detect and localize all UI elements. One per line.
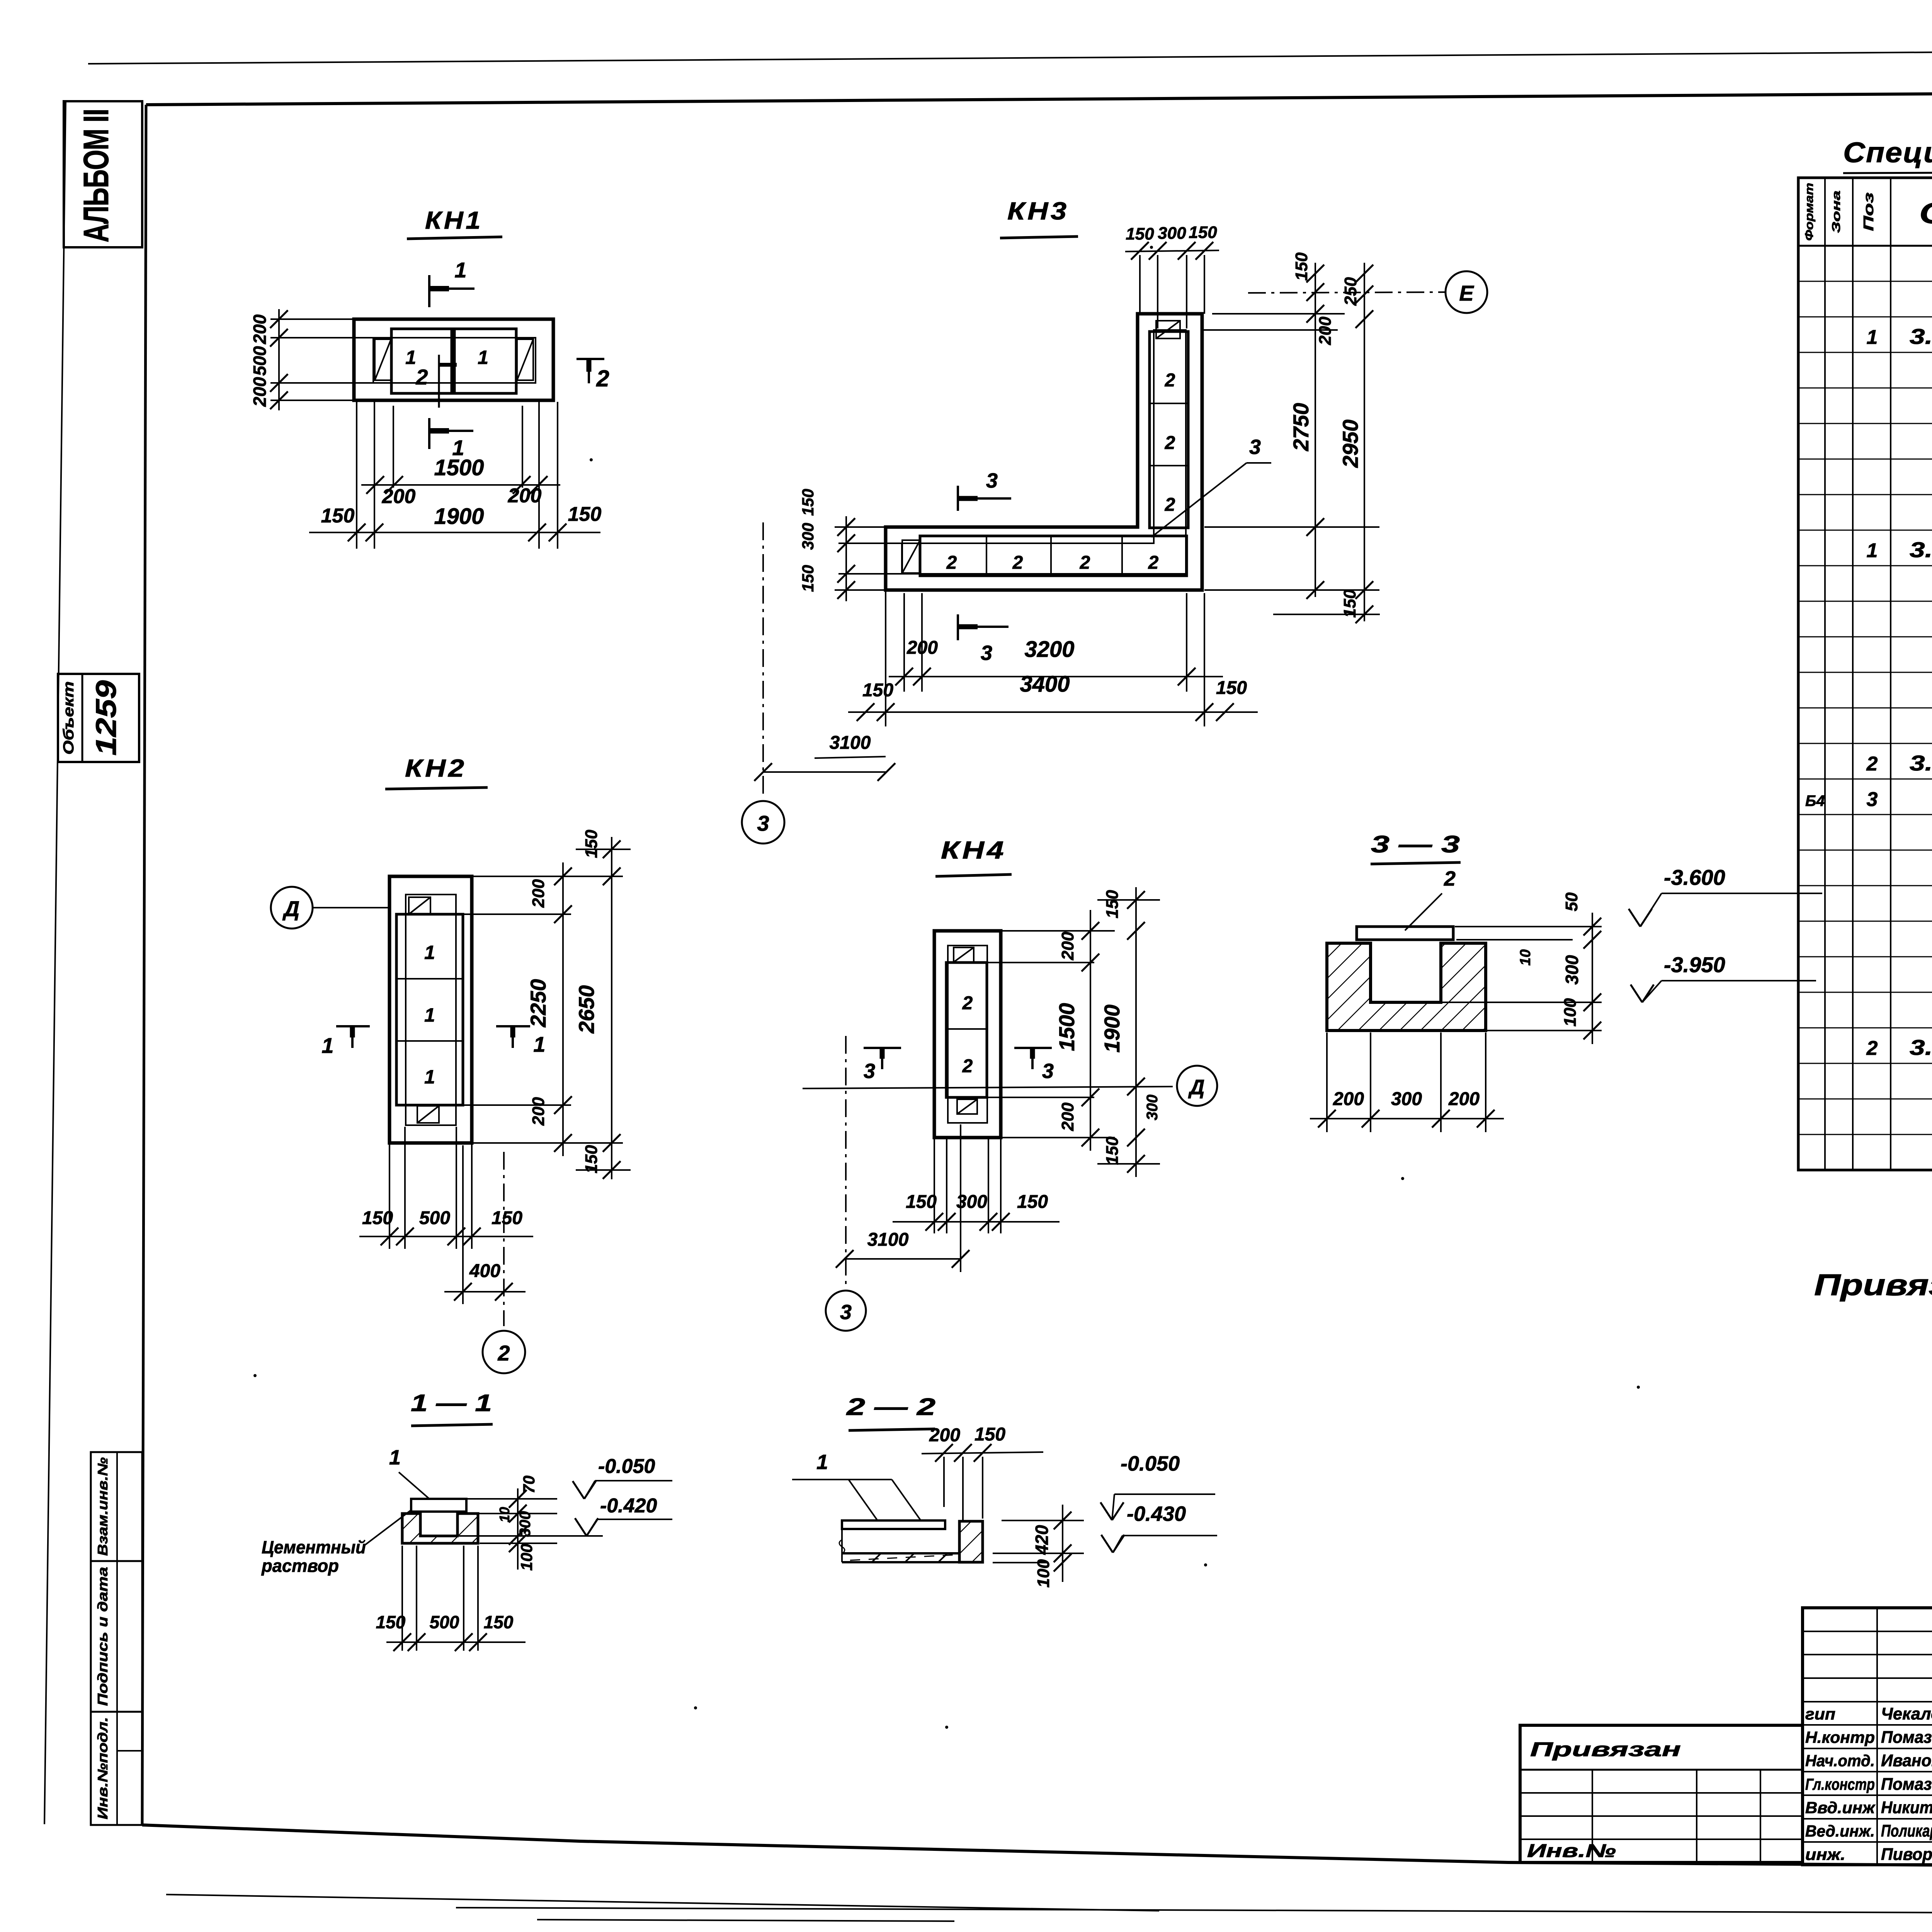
- svg-text:2750: 2750: [1289, 403, 1313, 452]
- svg-text:1900: 1900: [434, 504, 484, 529]
- privyazan row line: [1520, 1769, 1803, 1771]
- svg-text:200: 200: [929, 1425, 960, 1446]
- section 1-1 bottom extension lines: [401, 1546, 403, 1651]
- section 1-1 channel block: [402, 1514, 478, 1543]
- svg-text:3: 3: [981, 641, 992, 665]
- KN1 section mark 1 bottom: [428, 418, 430, 449]
- KN3 outer wall outline: [886, 314, 1202, 590]
- svg-text:200: 200: [529, 879, 548, 908]
- svg-text:3 — 3: 3 — 3: [1371, 831, 1460, 858]
- KN3 vertical plates stack: [1150, 332, 1188, 528]
- svg-text:200: 200: [250, 377, 270, 407]
- svg-text:Б4: Б4: [1805, 793, 1825, 810]
- KN3 axis E line: [1248, 292, 1446, 293]
- svg-text:Ввд.инж: Ввд.инж: [1805, 1798, 1876, 1816]
- spec table title underline: [1843, 171, 1932, 173]
- svg-text:200: 200: [508, 485, 542, 507]
- svg-text:Е: Е: [1459, 281, 1474, 305]
- svg-text:200: 200: [1316, 316, 1335, 345]
- KN4 right dim chain 1: [1090, 910, 1091, 1151]
- svg-text:Привязки к осям КН1 см. л: Привязки к осям КН1 см. лист КЖ -50: [1814, 1268, 1932, 1302]
- svg-text:300: 300: [1391, 1089, 1422, 1109]
- svg-text:Объект: Объект: [61, 681, 77, 755]
- spec table column lines: [1824, 178, 1826, 1170]
- drawing frame left: [142, 105, 146, 1825]
- svg-text:-0.050: -0.050: [1121, 1452, 1180, 1475]
- album label box: [64, 101, 142, 247]
- KN2 section mark 1 right: [496, 1025, 530, 1027]
- svg-text:2: 2: [596, 366, 609, 391]
- KN4 bottom dim line: [893, 1221, 1060, 1223]
- svg-text:2: 2: [962, 993, 973, 1014]
- section 1-1 title underline: [411, 1424, 493, 1426]
- svg-text:Формат: Формат: [1803, 183, 1816, 241]
- KN1 bottom extension lines: [356, 402, 357, 549]
- svg-text:150: 150: [376, 1612, 406, 1632]
- svg-text:3: 3: [864, 1060, 875, 1083]
- svg-text:Чекалов: Чекалов: [1881, 1704, 1932, 1723]
- svg-text:100: 100: [1034, 1559, 1053, 1588]
- svg-text:Привязан: Привязан: [1530, 1738, 1681, 1761]
- page bottom edge lines: [166, 1895, 1159, 1911]
- svg-text:150: 150: [862, 680, 893, 701]
- KN4 axis 3 line: [845, 1036, 847, 1285]
- svg-text:раствор: раствор: [261, 1556, 339, 1576]
- svg-text:2: 2: [962, 1056, 973, 1077]
- svg-text:Цементный: Цементный: [262, 1537, 366, 1557]
- svg-text:150: 150: [321, 505, 355, 527]
- KN3 top anchor hook: [1156, 321, 1180, 338]
- svg-text:Инв.№подл.: Инв.№подл.: [95, 1717, 111, 1820]
- KN4 outer wall rectangle: [934, 931, 1001, 1138]
- KN4 right dim chain 2: [1135, 887, 1137, 1177]
- svg-text:Помазов: Помазов: [1881, 1775, 1932, 1794]
- KN4 dim 3100: [845, 1258, 961, 1260]
- svg-text:Обозначение: Обозначение: [1919, 197, 1932, 230]
- section 3-3 bottom dim line: [1310, 1118, 1504, 1119]
- staff table box: [1803, 1608, 1932, 1865]
- svg-text:3.006.1-2/82 вып.1-2: 3.006.1-2/82 вып.1-2: [1910, 751, 1932, 775]
- KN4 section mark 3 left: [864, 1047, 901, 1049]
- KN2 bottom extension lines: [389, 1145, 390, 1249]
- KN3 section mark 3 lower: [957, 614, 959, 640]
- svg-text:400: 400: [469, 1261, 500, 1281]
- KN4 plates stack: [946, 963, 987, 1097]
- KN3 axis 3 line: [762, 522, 764, 797]
- svg-text:2: 2: [415, 365, 428, 389]
- svg-text:2: 2: [946, 553, 957, 573]
- spec table outer border: [1798, 178, 1932, 1170]
- svg-text:Зона: Зона: [1830, 190, 1843, 233]
- KN4 axis D circle: [1177, 1066, 1217, 1106]
- svg-text:2: 2: [1866, 1037, 1878, 1060]
- KN4 axis D line: [803, 1087, 1173, 1088]
- svg-text:200: 200: [1058, 932, 1077, 961]
- svg-text:Пиворова: Пиворова: [1881, 1845, 1932, 1864]
- KN3 dim 3100: [763, 771, 886, 773]
- svg-text:200: 200: [1058, 1102, 1077, 1131]
- svg-text:3100: 3100: [867, 1230, 909, 1250]
- KN4 bottom anchor hook: [957, 1099, 977, 1114]
- svg-text:300: 300: [1562, 955, 1582, 985]
- svg-text:2: 2: [1080, 553, 1090, 573]
- svg-text:150: 150: [1189, 223, 1217, 242]
- svg-text:2: 2: [1444, 867, 1456, 890]
- section 3-3 leader 2: [1405, 893, 1442, 930]
- svg-text:3: 3: [1867, 788, 1878, 811]
- svg-text:3: 3: [1042, 1060, 1054, 1083]
- section 3-3 channel block: [1327, 943, 1486, 1031]
- svg-text:Спецификация каналов КН1÷КН4: Спецификация каналов КН1÷КН4: [1843, 136, 1932, 168]
- podpis data box: [91, 1561, 142, 1712]
- svg-text:1500: 1500: [434, 455, 484, 480]
- svg-text:1500: 1500: [1054, 1003, 1079, 1051]
- KN4 axis 3 circle: [826, 1291, 866, 1331]
- KN4 right extension lines: [1001, 930, 1115, 932]
- svg-text:300: 300: [1158, 224, 1186, 243]
- drawing frame top: [146, 90, 1932, 105]
- svg-text:1259: 1259: [90, 680, 122, 756]
- object number box: [58, 674, 139, 762]
- KN3 horizontal plates row: [920, 536, 1187, 576]
- spec table row lines: [1798, 281, 1932, 282]
- svg-text:2: 2: [1165, 370, 1175, 391]
- KN2 dim 400: [444, 1291, 526, 1293]
- scattered scan specks: [590, 458, 593, 461]
- page left edge line: [44, 101, 66, 1824]
- svg-text:-3.600: -3.600: [1664, 865, 1725, 889]
- svg-text:150: 150: [1216, 678, 1247, 698]
- svg-text:гип: гип: [1805, 1705, 1835, 1723]
- svg-text:1 — 1: 1 — 1: [411, 1390, 492, 1417]
- section 2-2 right dim chain: [1062, 1505, 1063, 1582]
- svg-text:Нач.отд.: Нач.отд.: [1805, 1752, 1875, 1770]
- svg-text:500: 500: [430, 1612, 459, 1632]
- section 1-1 bottom dim line: [386, 1641, 526, 1643]
- svg-text:инж.: инж.: [1805, 1845, 1845, 1864]
- svg-text:2 — 2: 2 — 2: [846, 1394, 935, 1420]
- svg-text:1: 1: [454, 258, 466, 282]
- svg-text:200: 200: [1448, 1089, 1480, 1109]
- svg-text:150: 150: [1292, 252, 1311, 281]
- svg-text:150: 150: [1103, 1136, 1122, 1165]
- svg-text:Иванов: Иванов: [1881, 1751, 1932, 1770]
- svg-text:300: 300: [956, 1192, 987, 1212]
- inv podl box: [91, 1712, 142, 1825]
- svg-text:КН2: КН2: [405, 754, 467, 782]
- title block left part box: [1520, 1725, 1803, 1862]
- svg-text:-0.430: -0.430: [1127, 1502, 1186, 1526]
- svg-text:Поз: Поз: [1861, 192, 1876, 231]
- KN1 section line 2 vertical: [438, 355, 440, 408]
- KN1 plate 1 right: [454, 329, 516, 393]
- section 3-3 right dim chain: [1592, 913, 1593, 1044]
- svg-text:3100: 3100: [830, 733, 871, 753]
- svg-text:150: 150: [799, 565, 817, 592]
- title left grid columns: [1592, 1770, 1593, 1862]
- svg-text:150: 150: [906, 1192, 937, 1212]
- svg-text:3.006.1-2/82 вып.1-2: 3.006.1-2/82 вып.1-2: [1910, 324, 1932, 349]
- svg-text:3: 3: [757, 811, 769, 835]
- svg-text:150: 150: [582, 830, 601, 858]
- section 2-2 channel wall: [959, 1521, 983, 1562]
- KN2 axis D circle: [271, 887, 313, 929]
- section 3-3 title underline: [1371, 862, 1461, 864]
- svg-text:3: 3: [986, 469, 998, 492]
- svg-text:Гл.констр: Гл.констр: [1805, 1775, 1875, 1793]
- svg-text:200: 200: [1333, 1089, 1364, 1109]
- svg-text:200: 200: [382, 485, 416, 508]
- KN2 outer wall rectangle: [389, 876, 472, 1143]
- KN1 section mark 1 top: [428, 275, 430, 307]
- KN1 dim line 1500: [361, 484, 560, 486]
- section 2-2 leader 1: [792, 1479, 892, 1480]
- KN4 section mark 3 right: [1014, 1047, 1052, 1049]
- KN4 title underline: [935, 874, 1012, 876]
- svg-text:1: 1: [1867, 539, 1878, 562]
- svg-text:2650: 2650: [574, 985, 599, 1034]
- svg-text:70: 70: [520, 1476, 538, 1494]
- svg-text:150: 150: [582, 1145, 601, 1173]
- vzam inv box: [91, 1452, 142, 1561]
- svg-text:1: 1: [424, 1066, 435, 1088]
- svg-text:3200: 3200: [1024, 637, 1074, 662]
- KN1 right anchor hook: [517, 339, 533, 380]
- section 1-1 right extension lines: [468, 1498, 557, 1500]
- svg-text:1: 1: [478, 347, 488, 368]
- KN2 right dim chain 2: [611, 837, 612, 1179]
- KN1 inner channel rectangle: [373, 338, 536, 383]
- drawing frame bottom: [142, 1825, 1932, 1869]
- staff table rows: [1803, 1631, 1932, 1632]
- svg-text:150: 150: [484, 1612, 514, 1632]
- title left grid rows: [1520, 1792, 1803, 1794]
- KN3 right dim chain 2: [1364, 263, 1365, 621]
- svg-text:150: 150: [799, 489, 817, 516]
- svg-text:300: 300: [1144, 1095, 1161, 1121]
- svg-text:-0.050: -0.050: [598, 1455, 655, 1478]
- svg-text:10: 10: [1517, 949, 1534, 966]
- section 2-2 slab hatch marks: [872, 1553, 881, 1562]
- section 2-2 right extension lines: [1002, 1520, 1084, 1521]
- KN3 top extension lines: [1139, 255, 1141, 314]
- svg-text:500: 500: [250, 346, 270, 376]
- staff table columns: [1876, 1608, 1878, 1865]
- svg-text:200: 200: [529, 1097, 548, 1126]
- svg-text:100: 100: [1561, 998, 1580, 1027]
- svg-text:50: 50: [1562, 892, 1581, 911]
- svg-text:2: 2: [1866, 753, 1878, 775]
- svg-text:1900: 1900: [1100, 1005, 1124, 1053]
- svg-text:2: 2: [1165, 433, 1175, 453]
- KN2 bottom dim line: [359, 1236, 533, 1237]
- KN2 plates stack: [396, 914, 463, 1105]
- svg-text:1: 1: [424, 942, 435, 963]
- svg-text:КН3: КН3: [1007, 197, 1069, 225]
- svg-text:3400: 3400: [1020, 672, 1070, 697]
- section 2-2 title underline: [849, 1429, 935, 1430]
- section 2-2 top dim line: [922, 1452, 1043, 1454]
- svg-text:250: 250: [1341, 277, 1360, 306]
- svg-text:3.006.1-2/82 вып.1-2: 3.006.1-2/82 вып.1-2: [1910, 537, 1932, 562]
- section 2-2 left break line: [841, 1520, 843, 1562]
- svg-text:3.006.1-2/82 вып.1-2: 3.006.1-2/82 вып.1-2: [1910, 1035, 1932, 1060]
- section 2-2 floor slab: [842, 1553, 959, 1562]
- KN2 right dim chain 1: [562, 862, 564, 1156]
- KN1 section mark 2 right: [577, 358, 604, 360]
- svg-text:Никитина: Никитина: [1881, 1798, 1932, 1817]
- svg-text:200: 200: [250, 314, 270, 344]
- svg-text:АЛЬБОМ II: АЛЬБОМ II: [77, 109, 116, 243]
- section 1-1 leader 1: [399, 1472, 429, 1498]
- KN3 bottom dim line 3200: [889, 676, 1223, 677]
- svg-text:Взам.инв.№: Взам.инв.№: [95, 1458, 111, 1556]
- KN2 bottom anchor hook: [417, 1106, 439, 1123]
- section 3-3 bottom extension lines: [1326, 1032, 1328, 1132]
- svg-text:150: 150: [1126, 224, 1154, 243]
- KN3 axis 3 circle: [742, 801, 784, 844]
- svg-text:100: 100: [517, 1544, 536, 1571]
- KN4 bottom extension lines: [934, 1139, 935, 1233]
- section 2-2 top extension lines: [943, 1457, 945, 1507]
- KN3 section mark 3 upper: [957, 486, 959, 511]
- svg-text:2250: 2250: [526, 979, 550, 1028]
- KN1 left anchor hook: [375, 339, 391, 380]
- svg-text:2: 2: [497, 1341, 510, 1365]
- svg-text:1: 1: [816, 1451, 828, 1474]
- svg-text:2: 2: [1012, 553, 1023, 573]
- KN1 left dimension line: [278, 309, 280, 410]
- KN2 title underline: [385, 787, 488, 789]
- KN3 axis E circle: [1446, 271, 1487, 313]
- section 1-1 cover plate: [411, 1499, 466, 1512]
- svg-text:Помазов: Помазов: [1881, 1728, 1932, 1747]
- KN1 title underline: [407, 237, 502, 239]
- svg-text:1: 1: [1867, 326, 1878, 349]
- KN3 bottom extension lines: [885, 591, 886, 726]
- svg-text:-0.420: -0.420: [600, 1495, 657, 1517]
- svg-text:150: 150: [1103, 890, 1122, 918]
- KN4 top anchor hook: [954, 947, 974, 962]
- KN3 left extension lines: [835, 526, 886, 528]
- svg-text:2950: 2950: [1338, 420, 1362, 468]
- svg-text:2: 2: [1165, 495, 1175, 515]
- svg-text:150: 150: [568, 503, 602, 526]
- svg-text:1: 1: [321, 1033, 333, 1058]
- svg-text:300: 300: [517, 1511, 534, 1537]
- svg-text:Подпись и дата: Подпись и дата: [95, 1567, 111, 1706]
- svg-text:150: 150: [362, 1208, 393, 1228]
- svg-text:3: 3: [840, 1301, 852, 1324]
- svg-text:1: 1: [389, 1446, 401, 1469]
- KN1 outer wall rectangle: [354, 319, 553, 400]
- KN2 section mark 1 left: [336, 1025, 370, 1027]
- svg-text:1: 1: [424, 1004, 435, 1026]
- section 2-2 cover plate: [842, 1520, 945, 1529]
- KN3 right extension lines: [1212, 313, 1345, 315]
- KN2 axis 2 line: [503, 1152, 505, 1326]
- svg-text:КН1: КН1: [425, 206, 483, 234]
- svg-text:150: 150: [1340, 589, 1359, 618]
- KN1 left extension lines: [270, 318, 354, 320]
- svg-text:Д: Д: [1188, 1076, 1205, 1099]
- svg-text:500: 500: [419, 1208, 450, 1228]
- svg-text:3: 3: [1249, 435, 1261, 459]
- KN3 left anchor hook: [902, 540, 920, 573]
- svg-text:Вед.инж.: Вед.инж.: [1805, 1822, 1875, 1840]
- svg-text:1: 1: [533, 1032, 545, 1056]
- svg-text:Инв.№: Инв.№: [1527, 1841, 1616, 1861]
- KN2 axis 2 circle: [483, 1331, 525, 1373]
- KN3 right dim chain 1: [1315, 263, 1316, 597]
- KN2 axis D leader: [313, 907, 390, 908]
- KN1 dim line 1900: [309, 532, 600, 533]
- svg-text:КН4: КН4: [941, 836, 1007, 864]
- KN1 plate 1 left: [391, 329, 452, 393]
- KN2 top anchor hook: [409, 897, 430, 914]
- section 3-3 cover plate: [1357, 927, 1453, 940]
- svg-text:10: 10: [497, 1507, 512, 1522]
- svg-text:200: 200: [906, 638, 938, 658]
- svg-text:150: 150: [492, 1208, 522, 1228]
- KN3 bottom dim line 3400: [848, 711, 1258, 713]
- KN3 inner channel outline: [902, 330, 1186, 574]
- section 1-1 right dim chain: [517, 1488, 519, 1570]
- page top edge line: [88, 48, 1932, 64]
- svg-text:150: 150: [975, 1424, 1005, 1445]
- svg-text:Поликарпова: Поликарпова: [1881, 1821, 1932, 1840]
- KN3 title underline: [1000, 236, 1078, 238]
- KN4 inner channel rectangle: [948, 946, 987, 1123]
- svg-text:-3.950: -3.950: [1664, 952, 1725, 977]
- svg-text:Д: Д: [282, 896, 299, 921]
- svg-text:150: 150: [1017, 1192, 1048, 1212]
- KN2 inner channel rectangle: [406, 895, 456, 1125]
- svg-text:2: 2: [1148, 553, 1159, 573]
- svg-text:1: 1: [405, 347, 416, 368]
- spec table header line: [1798, 245, 1932, 247]
- KN2 right extension lines: [472, 876, 623, 877]
- section 1-1 mortar leader: [365, 1510, 411, 1545]
- section 3-3 right extension lines: [1455, 926, 1602, 927]
- svg-text:420: 420: [1032, 1525, 1052, 1555]
- svg-text:300: 300: [799, 523, 817, 550]
- KN3 top dim line: [1125, 250, 1219, 252]
- KN3 leader 3: [1151, 463, 1247, 537]
- KN3 left dim line: [845, 516, 847, 601]
- svg-text:Н.контр: Н.контр: [1805, 1728, 1875, 1747]
